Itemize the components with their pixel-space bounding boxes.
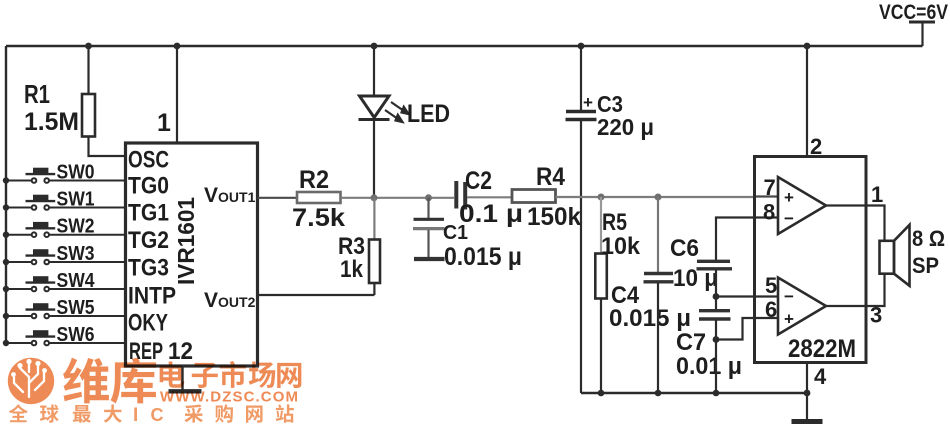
wire pin 7 stub: [755, 195, 780, 197]
svg-text:8: 8: [763, 200, 775, 225]
svg-text:0.015 μ: 0.015 μ: [444, 243, 522, 271]
svg-text:IVR1601: IVR1601: [173, 197, 199, 285]
wire R4 to amp pin 7: [556, 196, 755, 198]
svg-text:+: +: [784, 310, 794, 329]
junction pin4/ground rail: [804, 390, 811, 397]
junction C4/ground rail: [655, 390, 662, 397]
svg-text:+: +: [784, 188, 794, 207]
junction SW2/left-rail: [3, 232, 9, 238]
wire to C7: [715, 297, 717, 310]
svg-text:C6: C6: [670, 235, 699, 262]
svg-text:R1: R1: [24, 79, 50, 109]
op-amp IC U2 2822M body: [755, 157, 867, 363]
wire amp pin 1 out: [826, 206, 885, 241]
svg-text:1.5M: 1.5M: [24, 108, 79, 136]
junction pin2/top-rail: [804, 43, 811, 50]
wire R1 top: [87, 46, 89, 94]
capacitor C3 220u polarized: [566, 110, 596, 113]
wire to C4: [657, 197, 659, 272]
svg-text:2822M: 2822M: [788, 335, 856, 363]
svg-text:SW6: SW6: [57, 324, 95, 346]
resistor R4 150k: [512, 190, 556, 203]
svg-text:I: I: [133, 405, 138, 424]
wire amp pin 3 out: [826, 274, 885, 306]
svg-text:R2: R2: [299, 166, 329, 194]
svg-text:0.1 μ: 0.1 μ: [459, 200, 523, 228]
wire LED cathode to signal: [373, 120, 375, 198]
wire amp pin 4 to ground: [806, 363, 808, 421]
junction pin1/top-rail: [174, 43, 181, 50]
op-amp A1 triangle: [778, 177, 826, 234]
wire bottom ground rail: [581, 392, 807, 394]
svg-text:0.01 μ: 0.01 μ: [676, 353, 742, 380]
wire C6 to pin5 node: [715, 270, 717, 297]
junction C6/C7/pin5: [713, 293, 720, 300]
wire R3 to VOUT2: [373, 283, 375, 295]
wire to C1: [427, 198, 429, 218]
wire VOUT1 to R2: [258, 197, 298, 199]
svg-text:12: 12: [168, 338, 193, 365]
wire node A to R3: [373, 198, 375, 240]
svg-text:R5: R5: [602, 209, 627, 236]
resistor R3 1k: [369, 240, 380, 284]
junction R1/top-rail: [85, 43, 92, 50]
svg-text:SW1: SW1: [57, 189, 95, 211]
wire LED anode: [373, 46, 375, 96]
svg-text:8 Ω: 8 Ω: [912, 226, 945, 251]
wire C1 to ground bar: [427, 230, 429, 257]
svg-text:4: 4: [814, 364, 827, 389]
svg-text:−: −: [784, 209, 794, 228]
svg-text:7: 7: [764, 175, 776, 200]
resistor R1 1.5M: [82, 94, 95, 137]
switch SW1: [6, 195, 126, 210]
wire R5 to ground rail: [600, 299, 602, 394]
svg-text:150k: 150k: [527, 203, 581, 231]
svg-text:OKY: OKY: [128, 310, 168, 337]
LED D1: [360, 96, 390, 118]
wire VOUT2: [258, 294, 375, 296]
wire C7 to ground rail: [715, 320, 717, 393]
wire pin 6 bent stub: [716, 318, 779, 340]
watermark text quanqiu zuida IC caigou wangzhan: [9, 404, 28, 422]
junction LED/top-rail: [371, 43, 378, 50]
switch SW6: [6, 330, 126, 345]
junction C1/signal: [425, 194, 432, 201]
capacitor C4 0.015u: [644, 272, 673, 275]
svg-text:TG0: TG0: [128, 173, 169, 200]
svg-text:OSC: OSC: [128, 147, 169, 174]
ground bar under C1: [414, 257, 445, 261]
wire R2 to C2: [341, 197, 455, 199]
junction C7/ground rail: [713, 390, 720, 397]
junction SW4/left-rail: [3, 286, 9, 292]
wire C3 bottom to ground rail: [580, 121, 582, 393]
op-amp A2 triangle: [778, 278, 826, 335]
svg-text:SW3: SW3: [57, 243, 95, 265]
capacitor C6 10u: [697, 260, 730, 263]
LED arrows: [385, 102, 409, 122]
svg-text:5: 5: [765, 273, 777, 298]
svg-text:10 μ: 10 μ: [673, 265, 718, 292]
switch SW4: [6, 276, 126, 291]
wire C3 top: [580, 46, 582, 110]
wire amp pin 8 to C6: [716, 218, 779, 261]
wire R1 to OSC pin: [89, 137, 126, 157]
svg-text:C: C: [151, 405, 164, 424]
svg-text:C2: C2: [465, 167, 492, 195]
junction SW0/left-rail: [3, 177, 9, 183]
capacitor C7 0.01u: [699, 309, 730, 312]
switch SW5: [6, 303, 126, 318]
wire C2 to R4: [467, 196, 512, 198]
svg-text:R4: R4: [536, 163, 565, 191]
svg-text:+: +: [583, 93, 593, 112]
junction R5/ground rail: [598, 390, 605, 397]
wire pin 5 stub: [716, 295, 779, 297]
svg-text:1: 1: [157, 109, 171, 137]
svg-text:0.015 μ: 0.015 μ: [609, 305, 691, 332]
ground symbol under IC: [169, 389, 202, 393]
resistor R2 7.5k: [297, 192, 341, 203]
svg-text:SW4: SW4: [57, 270, 96, 292]
speaker SP 8 ohm: [880, 241, 895, 274]
svg-text:WWW.DZSC.COM: WWW.DZSC.COM: [160, 389, 298, 406]
IC U1 IVR1601 body: [126, 143, 258, 366]
watermark text dianzi shichang wang 电子市场网: [160, 361, 185, 387]
ground symbol under pin 4: [792, 419, 823, 424]
switch SW0: [6, 168, 126, 183]
junction C7/pin6: [713, 336, 720, 343]
junction SW1/left-rail: [3, 204, 9, 210]
VCC terminal bar: [909, 21, 935, 24]
wire to R5: [600, 197, 602, 254]
wire C4 to ground rail: [657, 283, 659, 393]
junction C4/signal: [655, 194, 662, 201]
wire top rail to IC pin 1: [176, 46, 178, 143]
watermark text weiku 维库: [63, 358, 109, 404]
junction R5/signal: [598, 194, 605, 201]
junction SW6/left-rail: [3, 340, 9, 346]
svg-text:SW5: SW5: [57, 297, 95, 319]
svg-text:−: −: [784, 287, 794, 306]
svg-text:220 μ: 220 μ: [597, 114, 654, 140]
svg-text:10k: 10k: [601, 233, 641, 260]
svg-text:INTP: INTP: [128, 283, 176, 310]
capacitor C1 0.015u: [414, 218, 445, 221]
svg-text:SW0: SW0: [57, 162, 95, 184]
capacitor C2 0.1u: [454, 181, 458, 209]
junction SW3/left-rail: [3, 259, 9, 265]
IC ground pin 12 wire: [181, 366, 183, 390]
svg-text:SW2: SW2: [57, 216, 95, 238]
svg-text:C7: C7: [676, 329, 706, 356]
wire top VCC rail: [6, 45, 923, 47]
wire top rail to amp pin 2: [806, 46, 808, 157]
junction node A (R2/R3/LED): [371, 194, 378, 201]
svg-text:6: 6: [765, 297, 777, 322]
switch SW3: [6, 249, 126, 264]
svg-text:7.5k: 7.5k: [292, 204, 345, 232]
svg-text:3: 3: [870, 303, 882, 328]
resistor R5 10k: [595, 254, 607, 299]
svg-text:SP: SP: [912, 253, 939, 278]
junction SW5/left-rail: [3, 313, 9, 319]
svg-text:TG2: TG2: [128, 227, 169, 254]
svg-text:1k: 1k: [340, 256, 364, 283]
watermark logo circle: [8, 358, 54, 404]
switch SW2: [6, 222, 126, 237]
wire left rail: [5, 46, 7, 343]
svg-text:TG1: TG1: [128, 200, 169, 227]
svg-text:LED: LED: [407, 100, 450, 128]
svg-text:TG3: TG3: [128, 254, 169, 281]
wire VCC drop: [921, 22, 923, 46]
svg-text:1: 1: [871, 182, 883, 207]
junction C3/top-rail: [578, 43, 585, 50]
